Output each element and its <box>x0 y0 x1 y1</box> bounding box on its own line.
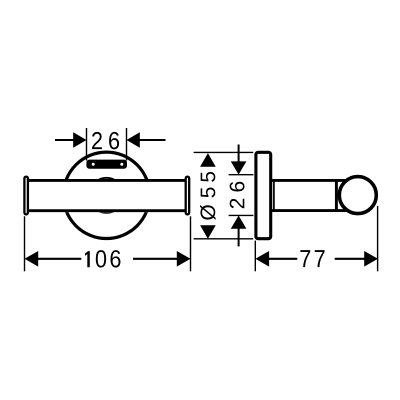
dim 77: extension line left <box>254 241 256 272</box>
arm top line <box>270 179 349 182</box>
wall plate <box>256 152 271 238</box>
bracket screw hole left <box>92 163 95 166</box>
dim 77: extension line right <box>377 206 379 271</box>
dim 106: line <box>36 258 179 260</box>
arm end line <box>335 179 338 212</box>
arm bottom line <box>270 209 349 212</box>
dim 26 top: left tail <box>55 139 75 141</box>
dim 106: text bg <box>81 248 133 268</box>
dim 77: text <box>300 250 324 267</box>
dim 106: left arrow <box>25 251 39 267</box>
dim 26 top: extension line right <box>126 128 128 161</box>
dim 26 top: extension line left <box>86 128 88 161</box>
dim 106: text <box>85 250 120 267</box>
dim O55: text <box>200 172 216 220</box>
dim O55: extension line top <box>194 151 254 153</box>
dim 77: left arrow <box>255 251 269 267</box>
dim 26 side: text <box>230 182 245 209</box>
dim 26 side: bottom arrow <box>231 216 247 229</box>
mounting bracket <box>86 160 127 169</box>
ball knob <box>339 177 376 214</box>
dim 26 top: text <box>92 132 119 149</box>
bar body (white fill) <box>29 179 186 212</box>
bar top line <box>29 179 186 182</box>
right end cap <box>186 177 190 215</box>
arm joint line <box>273 179 275 212</box>
dim 26 side: top arrow <box>231 161 247 174</box>
dim 106: right arrow <box>177 251 191 267</box>
bar bottom line <box>29 209 186 212</box>
inner circle: hub boss <box>89 178 124 213</box>
dim O55: extension line bottom <box>194 238 254 240</box>
dim 77: line <box>267 258 366 260</box>
dim O55: bottom arrow <box>200 225 216 239</box>
dim 26 side: top tail <box>238 145 240 163</box>
dim 26 top: right arrow <box>127 132 140 148</box>
dim 106: extension line left <box>24 216 26 271</box>
dim 26 side: extension line bottom <box>229 214 254 216</box>
dim 26 top: left arrow <box>73 132 86 148</box>
left end cap <box>24 177 28 215</box>
dim 26 side: bottom tail <box>238 228 240 247</box>
dim 106: extension line right <box>190 216 192 271</box>
dim 77: right arrow <box>364 251 378 267</box>
outer circle: wall rosette <box>63 152 149 238</box>
dim 26 top: right tail <box>139 139 166 141</box>
dim 77: text bg <box>297 248 334 268</box>
dim O55: top arrow <box>200 153 216 167</box>
dim 26 side: extension line top <box>229 174 254 176</box>
bracket screw hole right <box>120 163 123 166</box>
